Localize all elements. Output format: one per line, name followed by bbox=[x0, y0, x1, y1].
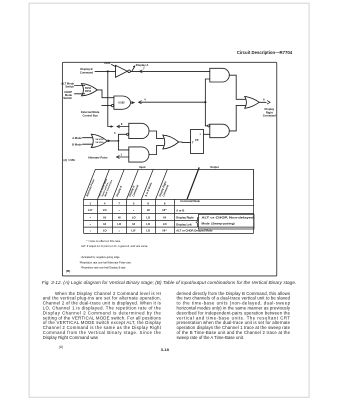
arrowhead Display B drop bbox=[111, 125, 114, 127]
node junction on Display B line bbox=[107, 70, 109, 72]
wire CHOP switch stub bbox=[75, 93, 85, 95]
wire U159D output to OR2 bbox=[149, 145, 163, 154]
svg-text:¹Actuated by negative-going ed: ¹Actuated by negative-going edge. bbox=[81, 255, 121, 259]
svg-text:HI¹²: HI¹² bbox=[162, 208, 167, 212]
svg-text:7: 7 bbox=[118, 201, 120, 205]
svg-text:T: T bbox=[192, 140, 194, 144]
row line C/D bbox=[84, 226, 254, 228]
wire node 4 to junction bbox=[139, 101, 205, 103]
svg-text:(B): (B) bbox=[66, 269, 70, 273]
svg-text:ALT or CHOP, Non-delayed: ALT or CHOP, Non-delayed bbox=[202, 215, 255, 219]
inverter U163 bbox=[116, 65, 128, 77]
arrowhead node 4 chevron bbox=[139, 101, 142, 104]
wire U163 label tick bbox=[112, 65, 117, 67]
svg-text:1: 1 bbox=[90, 201, 92, 205]
table body left border bbox=[83, 199, 85, 233]
note box bbox=[199, 214, 255, 229]
svg-text:4: 4 bbox=[104, 201, 106, 205]
svg-text:Output: Output bbox=[210, 165, 219, 169]
node junction on line 4 bbox=[204, 101, 206, 103]
figure border frame bbox=[62, 62, 276, 276]
column line 6 bbox=[173, 199, 175, 233]
svg-text:(A): (A) bbox=[59, 345, 63, 349]
table bottom border bbox=[84, 232, 254, 234]
wire node 1 Alternate Pulse to U159D bbox=[117, 156, 129, 158]
svg-text:HI: HI bbox=[132, 222, 135, 226]
svg-text:FF: FF bbox=[195, 138, 199, 142]
svg-text:U162: U162 bbox=[118, 101, 125, 105]
and gate U159C bbox=[129, 123, 149, 138]
svg-text:Mode (Sweep-pairing): Mode (Sweep-pairing) bbox=[202, 222, 235, 226]
arrowhead node 1 chevron bbox=[117, 155, 120, 158]
header diagonal separator col2/col3 bbox=[112, 170, 124, 200]
header diagonal separator col4/col5 bbox=[141, 170, 153, 200]
svg-text:HI: HI bbox=[163, 215, 166, 219]
svg-text:*: * bbox=[133, 209, 135, 213]
svg-text:A Mode: A Mode bbox=[72, 136, 82, 140]
arrowhead U162 output bbox=[131, 101, 135, 104]
svg-text:{: { bbox=[196, 216, 200, 228]
svg-text:Command: Command bbox=[263, 114, 276, 118]
wire to U159D top input bbox=[118, 149, 128, 151]
and gate U159B bbox=[210, 124, 230, 138]
wire node 8 to U159C bbox=[117, 126, 129, 128]
body text left column bbox=[43, 291, 162, 340]
svg-text:* = Has no effect on this case: * = Has no effect on this case. bbox=[86, 239, 121, 243]
column line 2 bbox=[111, 199, 113, 233]
svg-text:*: * bbox=[90, 229, 92, 233]
svg-text:LO: LO bbox=[146, 222, 150, 226]
table right border bbox=[253, 170, 255, 234]
header diagonal separator col3/col4 bbox=[127, 170, 139, 200]
row line under numbers bbox=[84, 205, 254, 207]
svg-text:*: * bbox=[90, 223, 92, 227]
svg-text:R154: R154 bbox=[85, 90, 92, 93]
svg-text:Horizontal Mode: Horizontal Mode bbox=[181, 200, 201, 203]
wire node 5 branch to bubbled input bbox=[118, 133, 126, 135]
svg-text:Switch: Switch bbox=[63, 96, 72, 100]
svg-text:*: * bbox=[90, 216, 92, 220]
wire OR2 to flip-flop T input bbox=[179, 141, 191, 143]
svg-text:Alternate Pulse: Alternate Pulse bbox=[85, 178, 96, 197]
svg-text:HI: HI bbox=[103, 215, 106, 219]
svg-text:HI: HI bbox=[147, 208, 150, 212]
svg-text:6: 6 bbox=[263, 97, 265, 101]
svg-text:LO¹: LO¹ bbox=[88, 208, 93, 212]
column line 4 bbox=[140, 199, 142, 233]
wire OR output to U162 bbox=[97, 90, 114, 98]
svg-text:LO¹: LO¹ bbox=[131, 229, 136, 233]
svg-text:8: 8 bbox=[147, 201, 149, 205]
wire U159C output to OR2 bbox=[149, 131, 163, 139]
svg-text:4: 4 bbox=[144, 98, 146, 102]
svg-text:6: 6 bbox=[164, 201, 166, 205]
svg-text:Alternate Pulse: Alternate Pulse bbox=[88, 155, 108, 159]
wire inverter output to AND U159A bbox=[130, 70, 209, 72]
truth table part B bbox=[84, 167, 255, 233]
wire B Mode stub bbox=[83, 143, 93, 145]
svg-text:B Mode: B Mode bbox=[72, 142, 82, 146]
wire Display B Command input bbox=[95, 70, 116, 72]
svg-text:U163: U163 bbox=[104, 61, 111, 65]
svg-text:Display Right Command was: Display Right Command was bbox=[43, 335, 98, 340]
wire U159B output to OR bbox=[229, 105, 245, 130]
wire A/B OR output to branch junction bbox=[111, 134, 119, 150]
svg-text:A or B: A or B bbox=[176, 208, 184, 212]
wire to U159A lower input bbox=[205, 78, 209, 80]
column line 3 bbox=[126, 199, 128, 233]
flip-flop FF U159 bbox=[191, 130, 204, 154]
wire Display A branch bbox=[132, 66, 135, 71]
svg-text:HI: HI bbox=[103, 222, 106, 226]
svg-text:LO: LO bbox=[146, 229, 150, 233]
svg-text:3-18: 3-18 bbox=[161, 347, 170, 352]
arrowhead A/B OR output bbox=[108, 140, 112, 143]
svg-text:³Repetition rate one-half Disp: ³Repetition rate one-half Display B rate… bbox=[81, 266, 127, 270]
nand gate U162 bbox=[114, 96, 131, 109]
or gate output stage bbox=[245, 96, 260, 108]
svg-text:HI¹³: HI¹³ bbox=[162, 229, 167, 233]
header diagonal separator col5/col6 bbox=[156, 170, 168, 200]
svg-text:(A) U159: (A) U159 bbox=[64, 158, 76, 162]
svg-text:5: 5 bbox=[114, 131, 116, 135]
svg-text:Input: Input bbox=[139, 165, 145, 169]
svg-text:HI: HI bbox=[118, 215, 121, 219]
table header band outline bbox=[84, 170, 254, 200]
and gate U159D bbox=[129, 147, 149, 162]
svg-text:*: * bbox=[119, 229, 121, 233]
column line 1 bbox=[97, 199, 99, 233]
wire U159A output to OR bbox=[229, 75, 245, 99]
svg-text:Command: Command bbox=[80, 71, 93, 75]
row line B/C partial bbox=[84, 220, 199, 222]
wire Display Right Command output bbox=[259, 101, 266, 103]
svg-text:Display B: Display B bbox=[80, 67, 92, 71]
svg-text:²Repetition rate one-half Alte: ²Repetition rate one-half Alternate Puls… bbox=[80, 260, 132, 264]
arrowhead node 7 chevron bbox=[139, 70, 142, 73]
svg-text:1/4 U162: 1/4 U162 bbox=[95, 138, 104, 141]
column line 5 bbox=[155, 199, 157, 233]
svg-text:*: * bbox=[119, 209, 121, 213]
arrowhead Display A branch bbox=[133, 65, 135, 68]
row line A/B bbox=[84, 213, 254, 215]
svg-text:LO: LO bbox=[103, 229, 107, 233]
svg-text:LO: LO bbox=[146, 215, 150, 219]
svg-text:5: 5 bbox=[133, 201, 135, 205]
arrowhead node 8 chevron bbox=[117, 125, 120, 128]
wire External Mode Control Bus stub bbox=[102, 105, 112, 107]
wire to U159B bubbled input bbox=[205, 125, 207, 127]
svg-text:LO: LO bbox=[132, 215, 136, 219]
wire FF output to U159B bbox=[204, 133, 210, 135]
svg-text:Fig. 3-12. (A) Logic diagram f: Fig. 3-12. (A) Logic diagram for Vertica… bbox=[42, 280, 296, 285]
svg-text:LO: LO bbox=[163, 222, 167, 226]
wire Display B vertical drop bbox=[108, 71, 111, 126]
svg-text:Control Bus: Control Bus bbox=[83, 113, 99, 117]
svg-text:ALT or CHOP, Delayed Mode: ALT or CHOP, Delayed Mode bbox=[176, 229, 213, 233]
arrowhead node 6 chevron bbox=[267, 101, 270, 105]
or gate A/B mode U162 bbox=[91, 134, 107, 147]
svg-text:Circuit Description—R7704: Circuit Description—R7704 bbox=[237, 50, 293, 55]
header diagonal separator col1/col2 bbox=[98, 170, 110, 200]
svg-text:Display Right: Display Right bbox=[176, 216, 193, 220]
and gate U159A bbox=[210, 68, 229, 82]
svg-text:1/4 U162: 1/4 U162 bbox=[95, 141, 104, 144]
heavy input/output divider bbox=[187, 167, 199, 199]
wire A Mode stub bbox=[83, 137, 93, 139]
svg-text:8: 8 bbox=[121, 122, 123, 126]
or gate OR2 bbox=[163, 135, 179, 149]
body text right column bbox=[177, 291, 291, 340]
resistor network OR gate R152 R154 bbox=[82, 84, 98, 96]
svg-text:2: 2 bbox=[200, 134, 202, 136]
svg-text:LO: LO bbox=[117, 222, 121, 226]
wire vertical bus to AND gates bbox=[204, 79, 206, 126]
svg-text:LO: LO bbox=[103, 208, 107, 212]
svg-text:Display Left: Display Left bbox=[176, 222, 191, 226]
svg-text:1: 1 bbox=[120, 153, 122, 157]
svg-text:sweep rate of the A Time-Base: sweep rate of the A Time-Base unit. bbox=[177, 335, 245, 340]
wire ALT switch stub bbox=[75, 85, 85, 87]
svg-text:ALT: If output is LO prior to: ALT: If output is LO prior to LO¹, it go… bbox=[81, 244, 148, 248]
svg-text:Switch: Switch bbox=[65, 85, 74, 89]
